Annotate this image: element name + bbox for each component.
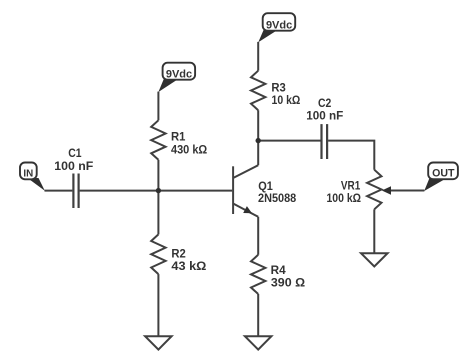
svg-text:43 kΩ: 43 kΩ [171,259,206,273]
svg-text:100 nF: 100 nF [306,108,343,122]
svg-text:10 kΩ: 10 kΩ [272,93,301,107]
svg-text:2N5088: 2N5088 [258,191,296,205]
svg-text:9Vdc: 9Vdc [266,19,292,31]
svg-text:C1: C1 [68,146,81,160]
svg-text:100 kΩ: 100 kΩ [327,191,362,205]
svg-text:390 Ω: 390 Ω [271,276,305,290]
svg-text:100 nF: 100 nF [54,159,93,173]
svg-text:OUT: OUT [432,168,455,180]
svg-text:9Vdc: 9Vdc [166,69,192,81]
svg-text:IN: IN [23,168,33,179]
svg-text:430 kΩ: 430 kΩ [171,142,207,156]
